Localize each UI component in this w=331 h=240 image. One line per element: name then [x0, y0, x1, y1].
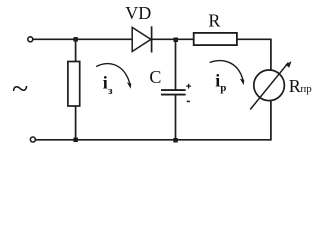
current arc i3: [96, 64, 130, 85]
current arc i3 arrowhead: [127, 82, 131, 88]
node dot bottom-mid: [173, 138, 178, 143]
needle arrowhead: [285, 61, 291, 67]
resistor ballast body: [68, 62, 80, 107]
svg-text:R: R: [208, 11, 220, 31]
wire meter bottom to bottom rail and bottom rail: [36, 101, 271, 140]
node dot top-left: [73, 37, 78, 42]
terminal top-left: [28, 37, 33, 42]
resistor R body: [194, 33, 237, 45]
wire left branch lower: [75, 106, 77, 140]
capacitor polarity minus: [187, 100, 190, 102]
svg-text:i: i: [103, 73, 108, 93]
diode VD cathode bar: [151, 26, 153, 52]
svg-text:~: ~: [12, 72, 28, 105]
wire R to right branch corner: [237, 39, 271, 69]
terminal bottom-left: [30, 137, 35, 142]
current arc ip: [210, 61, 244, 81]
wire left branch upper: [75, 39, 77, 61]
needle arrow shaft: [250, 63, 288, 110]
svg-text:р: р: [220, 82, 226, 94]
node dot top-mid: [174, 38, 179, 43]
capacitor plate bottom: [161, 94, 186, 96]
wire top rail from input to diode: [33, 38, 132, 40]
meter circle Rpr: [254, 70, 285, 101]
wire capacitor branch upper: [175, 39, 177, 89]
wire capacitor branch lower: [175, 95, 177, 140]
svg-text:з: з: [108, 85, 113, 97]
svg-text:VD: VD: [125, 3, 151, 23]
svg-text:C: C: [149, 67, 161, 87]
current arc ip arrowhead: [240, 79, 244, 85]
wire top rail diode to node: [152, 38, 194, 40]
svg-text:пр: пр: [300, 83, 312, 95]
capacitor polarity plus: [186, 84, 191, 89]
svg-text:R: R: [289, 76, 301, 96]
node dot bottom-left: [73, 138, 78, 143]
diode VD triangle: [132, 27, 151, 51]
capacitor plate top: [161, 89, 186, 91]
